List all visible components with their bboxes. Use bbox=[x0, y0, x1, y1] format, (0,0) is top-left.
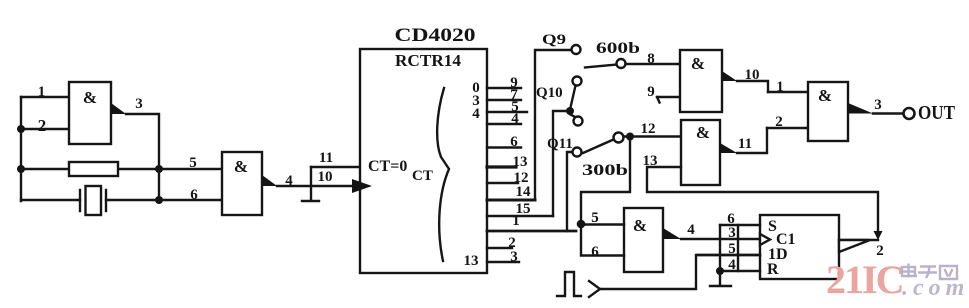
ground at flipflop bbox=[710, 285, 731, 287]
svg-text:5: 5 bbox=[728, 241, 736, 257]
switch blade circle 600b bbox=[617, 59, 626, 68]
svg-text:&: & bbox=[818, 86, 832, 105]
svg-text:600b: 600b bbox=[596, 40, 640, 57]
pin 14 stub Q10 bbox=[487, 199, 535, 202]
counter U2 CD4020 box bbox=[360, 49, 487, 273]
svg-text:13: 13 bbox=[464, 253, 479, 269]
wire 1D pin 5 bbox=[697, 254, 760, 256]
svg-text:2: 2 bbox=[38, 116, 47, 135]
nand gate U3b bbox=[681, 120, 720, 185]
wire input 1 of gate A bbox=[21, 96, 69, 98]
wire 10 gate C output bbox=[737, 81, 768, 92]
svg-text:6: 6 bbox=[510, 134, 518, 150]
node switch common bbox=[566, 107, 574, 115]
wire 6 input gate E bbox=[581, 224, 624, 256]
wire S-R tie left bbox=[719, 225, 721, 285]
switch blade 300b bbox=[583, 140, 614, 154]
svg-text:CT=0: CT=0 bbox=[368, 158, 407, 175]
wire pole link upper bbox=[571, 86, 576, 108]
svg-text:4: 4 bbox=[728, 257, 736, 273]
svg-text:CT: CT bbox=[412, 168, 433, 184]
watermark dianzi chars bbox=[902, 264, 957, 280]
svg-text:&: & bbox=[691, 54, 705, 73]
nand gate U3a bbox=[680, 50, 722, 112]
svg-text:10: 10 bbox=[745, 67, 760, 83]
crystal Y1 bbox=[80, 190, 106, 211]
svg-text:6: 6 bbox=[190, 187, 198, 203]
node junction gate E inputs bbox=[577, 220, 586, 229]
svg-text:8: 8 bbox=[647, 51, 655, 67]
pin 7 stub Q4 bbox=[487, 99, 521, 101]
wire 3 output bbox=[873, 112, 904, 114]
wire 1 into gate F bbox=[768, 91, 808, 93]
svg-text:Q11: Q11 bbox=[547, 136, 573, 152]
svg-text:4: 4 bbox=[285, 173, 293, 189]
switch contact lower pole bbox=[574, 117, 583, 126]
svg-text:OUT: OUT bbox=[918, 102, 956, 124]
wire 5 input gate E bbox=[581, 223, 624, 225]
pin 12 stub Q9 bbox=[487, 182, 518, 184]
resistor R1 bbox=[69, 162, 118, 176]
svg-text:21IC: 21IC bbox=[826, 257, 902, 302]
pin 3 stub Q14 bbox=[487, 261, 519, 263]
flipflop U5 box bbox=[760, 215, 839, 279]
svg-text:14: 14 bbox=[516, 184, 532, 200]
clock triangle C1 bbox=[760, 234, 770, 245]
node junction R/ground bbox=[716, 267, 724, 275]
svg-text:2: 2 bbox=[775, 114, 783, 130]
svg-text:&: & bbox=[83, 88, 97, 107]
svg-text:12: 12 bbox=[641, 121, 656, 137]
pin 6 stub Q7 bbox=[487, 146, 521, 148]
wire 2 into gate F bbox=[767, 127, 808, 129]
wire 13 feedback loop bbox=[647, 167, 878, 232]
svg-text:1: 1 bbox=[38, 84, 46, 100]
flipflop inverted output flag bbox=[839, 240, 870, 252]
svg-text:4: 4 bbox=[472, 106, 480, 122]
svg-text:5: 5 bbox=[591, 210, 599, 226]
nand gate U4 inverter bbox=[624, 208, 663, 272]
wire Q9 contact riser bbox=[535, 50, 572, 200]
wire 12 to gate D bbox=[624, 135, 682, 137]
pin 15 stub Q11 bbox=[487, 215, 553, 217]
wire 9 input gate C bbox=[657, 97, 680, 103]
wire S-R tie right bbox=[737, 225, 739, 271]
svg-text:11: 11 bbox=[738, 136, 752, 152]
switch blade 600b bbox=[585, 65, 617, 68]
svg-text:4: 4 bbox=[511, 111, 519, 127]
node junction wire5/wire3 bbox=[155, 165, 163, 173]
svg-text:5: 5 bbox=[189, 155, 197, 171]
wire 6 crystal branch bbox=[21, 199, 222, 201]
svg-text:&: & bbox=[696, 123, 710, 142]
svg-text:R: R bbox=[767, 261, 779, 278]
pin 9 stub Q1 bbox=[487, 87, 521, 89]
svg-text:1: 1 bbox=[512, 213, 520, 229]
wire R pin 4 bbox=[720, 270, 760, 272]
nand gate U1a bbox=[69, 82, 111, 144]
svg-text:&: & bbox=[633, 216, 647, 235]
wire output 3 of gate A bbox=[126, 114, 159, 169]
wire input 2 of gate A bbox=[21, 128, 69, 130]
svg-text:3: 3 bbox=[728, 225, 736, 241]
wire 4 clock to CD4020 bbox=[277, 185, 358, 187]
wire Q10 common riser bbox=[553, 111, 566, 216]
svg-text:3: 3 bbox=[135, 96, 143, 112]
node junction bus/wire2 bbox=[17, 125, 25, 133]
svg-text:11: 11 bbox=[319, 150, 333, 166]
wire elbow to gate E junction bbox=[581, 139, 630, 224]
svg-text:13: 13 bbox=[643, 153, 658, 169]
terminal OUT bbox=[904, 108, 915, 119]
svg-text:1: 1 bbox=[776, 79, 784, 95]
feedback tap arrow bbox=[874, 231, 883, 240]
switch contact upper pole bbox=[573, 77, 582, 86]
svg-text:300b: 300b bbox=[582, 162, 628, 179]
svg-text:RCTR14: RCTR14 bbox=[395, 51, 462, 70]
CD4020 internal brace bbox=[437, 88, 449, 261]
pin 5 stub Q5 bbox=[487, 111, 527, 113]
pin 13 stub Q8 bbox=[487, 165, 516, 168]
wire 11 gate D output bbox=[737, 128, 767, 153]
wire 4 gate E output to C1 bbox=[681, 238, 760, 240]
wire 5 resistor feedback bbox=[21, 168, 222, 170]
nand gate U1b bbox=[222, 152, 262, 215]
svg-text:.com: .com bbox=[902, 275, 969, 301]
svg-text:10: 10 bbox=[318, 169, 333, 185]
switch contact Q9 bbox=[572, 45, 581, 54]
wire 8 to gate C bbox=[626, 63, 681, 65]
clock edge arrow into CD4020 bbox=[352, 179, 372, 193]
flipflop output wire bbox=[839, 239, 878, 241]
svg-text:9: 9 bbox=[647, 84, 655, 100]
svg-text:3: 3 bbox=[510, 249, 518, 265]
pin 1 stub Q12 bbox=[487, 230, 576, 233]
nand gate U3c final bbox=[808, 82, 848, 141]
svg-text:13: 13 bbox=[513, 154, 528, 170]
wire left bus bbox=[20, 97, 22, 201]
pin 2 stub Q13 bbox=[487, 247, 512, 249]
pulse input symbol bbox=[557, 272, 581, 296]
wire Q11 contact riser bbox=[567, 152, 573, 231]
svg-text:6: 6 bbox=[591, 244, 599, 260]
svg-text:Q9: Q9 bbox=[542, 32, 566, 48]
ground at pin 11 bbox=[302, 167, 319, 201]
svg-text:&: & bbox=[234, 157, 248, 176]
node junction 300b bbox=[626, 133, 634, 141]
wire S pin 6 bbox=[720, 224, 760, 226]
svg-text:4: 4 bbox=[687, 222, 695, 238]
wire pulse to 1D bbox=[600, 255, 760, 289]
node junction bus/wire5 bbox=[17, 165, 25, 173]
wire pole link lower bbox=[571, 115, 577, 118]
wire pin11 reset bbox=[311, 166, 360, 168]
pin 4 stub Q6 bbox=[487, 123, 521, 125]
switch blade circle 300b bbox=[614, 133, 624, 143]
node junction wire6/crystal bbox=[155, 196, 163, 204]
svg-text:Q10: Q10 bbox=[536, 85, 563, 101]
switch contact Q11 bbox=[573, 148, 582, 157]
wire junction vertical bbox=[158, 169, 160, 200]
svg-text:CD4020: CD4020 bbox=[395, 25, 476, 46]
pulse arrow bbox=[589, 281, 600, 297]
svg-text:3: 3 bbox=[874, 97, 882, 113]
